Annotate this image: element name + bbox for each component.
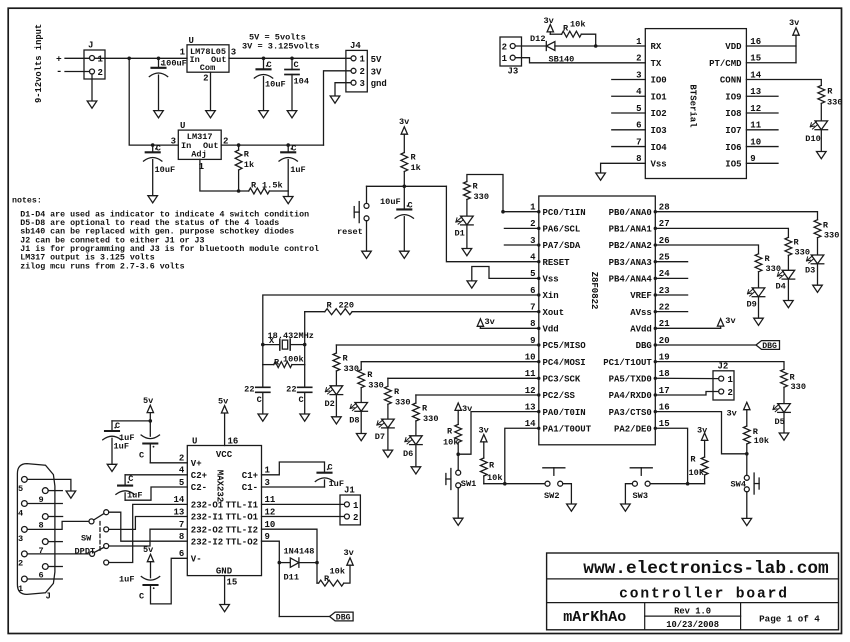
- wire BT CONN to D10 chain: [746, 80, 821, 86]
- svg-text:IO6: IO6: [725, 143, 741, 153]
- svg-text:Z8F0822: Z8F0822: [589, 272, 599, 310]
- svg-text:-: -: [56, 66, 62, 78]
- svg-text:232-O2: 232-O2: [191, 525, 223, 535]
- svg-text:IO1: IO1: [651, 92, 668, 102]
- svg-text:7: 7: [179, 520, 184, 530]
- wire V+ to cap: [150, 462, 187, 464]
- svg-text:J1 is for programming and J3 i: J1 is for programming and J3 is for blue…: [20, 244, 319, 254]
- svg-text:Xout: Xout: [543, 308, 565, 318]
- wire BT IO0 stub: [612, 79, 646, 81]
- wire DB9 pin1 stub: [27, 578, 62, 580]
- svg-text:9: 9: [750, 154, 755, 164]
- svg-text:C1-: C1-: [242, 483, 258, 493]
- wire VREF stub: [655, 294, 687, 296]
- svg-text:R: R: [473, 182, 479, 192]
- svg-text:PC5/MISO: PC5/MISO: [543, 341, 587, 351]
- power 3v (BT RX pullup): [544, 16, 562, 34]
- ground (SW3): [621, 504, 631, 511]
- svg-text:R: R: [489, 460, 495, 470]
- wire 5V rail LM78L05 Out to J4: [229, 57, 351, 61]
- svg-text:10k: 10k: [487, 473, 502, 483]
- svg-text:10uF: 10uF: [265, 80, 286, 90]
- svg-text:D10: D10: [805, 134, 820, 144]
- svg-text:PB2/ANA2: PB2/ANA2: [609, 241, 652, 251]
- resistor R 330 (D8): [358, 370, 384, 403]
- svg-text:C: C: [139, 592, 144, 602]
- svg-text:3v: 3v: [399, 117, 409, 127]
- svg-text:2: 2: [98, 68, 103, 78]
- wire PA3/CTS0 to SW4 node: [655, 412, 748, 456]
- svg-text:DBG: DBG: [336, 614, 351, 623]
- svg-text:J: J: [88, 41, 93, 51]
- wire BT IO3 stub: [612, 129, 646, 131]
- wire DB9 pin5 to ground: [27, 479, 71, 491]
- wire to D7 chain: [388, 378, 539, 386]
- svg-text:12: 12: [525, 386, 536, 396]
- svg-text:mArKhAo: mArKhAo: [563, 609, 626, 626]
- svg-text:J4: J4: [350, 41, 361, 51]
- wire BT IO7 stub: [746, 129, 778, 131]
- svg-text:2: 2: [636, 54, 641, 64]
- wire TTL-I2 to D11 node: [262, 529, 319, 564]
- svg-text:4: 4: [18, 508, 23, 518]
- wire reset node: [367, 185, 539, 262]
- svg-text:C: C: [139, 451, 144, 461]
- svg-text:PA6/SCL: PA6/SCL: [543, 225, 581, 235]
- svg-text:SW3: SW3: [633, 491, 648, 501]
- svg-text:IO0: IO0: [651, 76, 667, 86]
- svg-text:1uF: 1uF: [119, 575, 134, 585]
- push button SW2: [543, 468, 565, 501]
- wire TTL-O2 to DBG: [262, 541, 330, 616]
- wire PC1/T1OUT to D5 chain: [655, 362, 784, 370]
- svg-text:1: 1: [636, 37, 642, 47]
- svg-text:V+: V+: [191, 459, 202, 469]
- connector J2: [713, 362, 734, 401]
- IC U4 BTSerial: [636, 29, 762, 179]
- svg-text:C2+: C2+: [191, 471, 207, 481]
- svg-text:Adj: Adj: [191, 149, 206, 159]
- svg-text:19: 19: [659, 352, 670, 362]
- svg-text:IO2: IO2: [651, 109, 667, 119]
- svg-text:330: 330: [344, 364, 359, 374]
- power 3v (SW1 pullup): [455, 403, 472, 424]
- svg-text:C: C: [257, 395, 262, 405]
- capacitor C 100uF: [149, 58, 186, 110]
- svg-text:1uF: 1uF: [290, 165, 305, 175]
- svg-text:Vss: Vss: [543, 275, 559, 285]
- power 5v (MAX232 VCC): [218, 397, 228, 446]
- resistor R 220: [325, 301, 354, 315]
- svg-text:+: +: [56, 54, 62, 65]
- wire DB9 pin8 stub: [48, 516, 62, 518]
- svg-text:TTL-O1: TTL-O1: [226, 513, 259, 523]
- svg-text:PT/CMD: PT/CMD: [709, 59, 742, 69]
- svg-text:PA0/T0IN: PA0/T0IN: [543, 408, 586, 418]
- ground (SW4): [742, 518, 752, 525]
- svg-text:D11: D11: [284, 573, 299, 583]
- svg-text:PA1/T0OUT: PA1/T0OUT: [543, 424, 592, 434]
- svg-text:3v: 3v: [725, 316, 735, 326]
- svg-text:14: 14: [750, 70, 761, 80]
- svg-text:PB3/ANA3: PB3/ANA3: [609, 258, 652, 268]
- capacitor C 10uF (reset): [380, 186, 414, 251]
- svg-text:27: 27: [659, 219, 670, 229]
- svg-text:J3: J3: [508, 67, 519, 77]
- svg-text:controller board: controller board: [619, 586, 789, 602]
- svg-text:D2: D2: [325, 399, 335, 409]
- svg-text:R: R: [367, 370, 373, 380]
- power 3v (BT VDD/PT-CMD): [746, 18, 799, 63]
- svg-text:R: R: [274, 357, 280, 367]
- resistor R 1.5k: [249, 181, 283, 195]
- svg-text:13: 13: [750, 87, 761, 97]
- resistor R 330 (D1): [464, 182, 489, 217]
- svg-text:25: 25: [659, 252, 670, 262]
- svg-text:330: 330: [791, 382, 806, 392]
- svg-text:15: 15: [659, 419, 670, 429]
- svg-text:11: 11: [525, 369, 536, 379]
- ground (reset cap): [400, 251, 410, 258]
- svg-text:gnd: gnd: [371, 79, 387, 89]
- svg-text:zilog mcu runs from 2.7-3.6 vo: zilog mcu runs from 2.7-3.6 volts: [20, 261, 184, 271]
- connector J4 (power out): [346, 41, 387, 92]
- LED D9: [747, 288, 765, 318]
- svg-text:SW: SW: [81, 534, 92, 544]
- svg-text:PC4/MOSI: PC4/MOSI: [543, 358, 586, 368]
- wire TTL-O1 to J1 pin2: [262, 516, 345, 518]
- resistor R 10k (BT RX): [562, 20, 596, 47]
- ground (10uF LM317): [148, 196, 158, 203]
- power 3v (SW4 pullup): [727, 402, 751, 426]
- ground (D5): [779, 433, 789, 440]
- svg-text:J: J: [46, 592, 51, 602]
- svg-text:5v: 5v: [143, 396, 153, 406]
- svg-text:C: C: [115, 421, 120, 431]
- capacitor C 1uF (C1): [262, 462, 344, 489]
- svg-text:9: 9: [265, 532, 270, 542]
- wire J4 pin3 to ground: [335, 83, 351, 96]
- power 3v (AVdd): [655, 316, 735, 329]
- svg-text:4: 4: [636, 87, 642, 97]
- svg-text:IO4: IO4: [651, 143, 668, 153]
- capacitor 22pF (Xin): [244, 365, 270, 414]
- title www.electronics-lab.com: [583, 559, 829, 579]
- svg-text:8: 8: [179, 532, 184, 542]
- svg-text:10: 10: [265, 520, 276, 530]
- svg-text:IO9: IO9: [725, 92, 741, 102]
- svg-text:sb140 can be replaced with gen: sb140 can be replaced with gen. purpose …: [20, 227, 294, 237]
- wire PB4 stub: [655, 277, 687, 279]
- svg-text:1: 1: [353, 501, 359, 511]
- ground (BT Vss): [596, 173, 606, 180]
- title author mArKhAo: [563, 609, 626, 626]
- wire DPDT throw4 to 232-O1: [109, 504, 188, 562]
- svg-text:J2 can be conneted to either J: J2 can be conneted to either J1 or J3: [20, 235, 204, 245]
- power 3v (reset pullup): [399, 117, 409, 153]
- svg-text:5v: 5v: [218, 397, 228, 407]
- svg-text:10: 10: [750, 137, 761, 147]
- diode D11 1N4148: [279, 547, 317, 583]
- flag DBG (MAX232): [330, 612, 354, 623]
- svg-text:10k: 10k: [330, 567, 345, 577]
- capacitor C 1uF (C2): [116, 474, 187, 501]
- svg-text:C: C: [294, 60, 299, 70]
- svg-text:1uF: 1uF: [329, 479, 344, 489]
- svg-text:17: 17: [659, 386, 670, 396]
- svg-text:12: 12: [265, 507, 276, 517]
- svg-text:LM317 output is 3.125 volts: LM317 output is 3.125 volts: [20, 253, 154, 263]
- svg-text:1: 1: [18, 584, 23, 594]
- LED D10: [805, 121, 827, 152]
- push button reset: [337, 186, 369, 251]
- capacitor C 10uF (5V rail): [254, 58, 285, 110]
- ground (J pin2): [87, 101, 97, 108]
- svg-text:9: 9: [530, 336, 535, 346]
- svg-text:www.electronics-lab.com: www.electronics-lab.com: [583, 559, 829, 579]
- svg-text:IO3: IO3: [651, 126, 667, 136]
- svg-text:TTL-O2: TTL-O2: [226, 537, 258, 547]
- svg-text:1k: 1k: [411, 163, 421, 173]
- wire PA4/RXD0 to J2 pin2: [655, 392, 718, 395]
- ground (D6): [411, 467, 421, 474]
- svg-text:1uF: 1uF: [127, 491, 142, 501]
- svg-text:9-12volts input: 9-12volts input: [34, 24, 44, 103]
- capacitor C 10uF (LM317 in): [144, 144, 176, 196]
- wire PC0 to R330 D1: [467, 175, 539, 214]
- svg-text:C: C: [128, 474, 133, 484]
- svg-text:R: R: [447, 427, 453, 437]
- svg-text:Vdd: Vdd: [543, 325, 559, 335]
- wire DB9 pin4 stub: [27, 503, 62, 505]
- wire LM317 Adj: [200, 159, 249, 192]
- ground (104): [287, 111, 297, 118]
- svg-text:AVss: AVss: [630, 308, 652, 318]
- svg-text:100uF: 100uF: [161, 59, 187, 69]
- svg-text:PA3/CTS0: PA3/CTS0: [609, 408, 652, 418]
- svg-text:220: 220: [339, 301, 354, 311]
- svg-text:330: 330: [368, 381, 383, 391]
- svg-text:15: 15: [750, 54, 761, 64]
- svg-text:3v: 3v: [789, 18, 799, 28]
- svg-text:R: R: [794, 238, 800, 248]
- svg-text:R: R: [343, 354, 349, 364]
- svg-text:C1+: C1+: [242, 471, 258, 481]
- svg-text:3v: 3v: [544, 16, 554, 26]
- svg-text:3: 3: [360, 79, 365, 89]
- resistor R 330 (D6): [413, 403, 439, 436]
- svg-text:10k: 10k: [443, 438, 458, 448]
- wire J pin1 to LM78L05 In rail: [95, 57, 188, 61]
- svg-text:2: 2: [203, 74, 208, 84]
- svg-text:5V: 5V: [371, 55, 382, 65]
- wire BT Vss to ground: [601, 163, 646, 173]
- push button SW4: [731, 454, 760, 519]
- svg-text:6: 6: [179, 549, 184, 559]
- svg-text:C: C: [291, 144, 296, 154]
- svg-text:12: 12: [750, 104, 761, 114]
- svg-text:1: 1: [98, 54, 104, 64]
- svg-text:1k: 1k: [244, 160, 254, 170]
- ground (MAX232 GND): [220, 605, 230, 612]
- title rev: [674, 607, 711, 617]
- title controller board: [619, 586, 789, 602]
- svg-text:SW1: SW1: [461, 479, 476, 489]
- svg-text:IO5: IO5: [725, 160, 741, 170]
- resistor R 10k (SW4): [743, 426, 769, 454]
- svg-text:R: R: [765, 254, 771, 264]
- resistor R 10k (SW3): [689, 454, 709, 483]
- wire LM317 Out to 3V node: [221, 143, 323, 147]
- svg-text:1: 1: [530, 203, 536, 213]
- wire to D6 chain: [416, 395, 539, 403]
- svg-text:2: 2: [728, 388, 733, 398]
- wire BT IO4 stub: [612, 146, 646, 148]
- ground (SW1): [453, 518, 463, 525]
- svg-text:R: R: [411, 153, 417, 163]
- resistor R 330 (D9): [755, 254, 781, 288]
- svg-text:2: 2: [18, 559, 23, 569]
- title date: [666, 620, 719, 630]
- regulator U2 LM317: [171, 121, 229, 172]
- svg-text:1.5k: 1.5k: [262, 181, 283, 191]
- svg-text:reset: reset: [337, 227, 363, 237]
- svg-text:23: 23: [659, 286, 670, 296]
- svg-text:330: 330: [824, 231, 839, 241]
- svg-text:R: R: [827, 86, 833, 96]
- wire Xin net: [263, 295, 539, 345]
- wire DPDT throw2 to 232-I1: [109, 517, 188, 530]
- svg-text:In: In: [181, 141, 191, 151]
- wire Vss to ground: [472, 267, 539, 281]
- svg-text:Xin: Xin: [543, 291, 559, 301]
- power 3v (SW2 pullup): [479, 426, 489, 458]
- svg-text:3v: 3v: [462, 404, 472, 414]
- title page: [759, 613, 820, 624]
- resistor R 100k: [263, 345, 305, 368]
- crystal X 18.432MHz: [261, 331, 314, 350]
- svg-text:330: 330: [395, 397, 410, 407]
- title block: [547, 553, 839, 630]
- svg-text:D12: D12: [530, 34, 545, 44]
- svg-text:1: 1: [265, 466, 271, 476]
- wire AVss stub: [655, 311, 687, 313]
- wire J4 pin2 3V to LM317 out: [324, 71, 352, 145]
- svg-text:C: C: [267, 60, 272, 70]
- svg-text:5: 5: [636, 104, 641, 114]
- ground (LM78L05 Com): [206, 111, 216, 118]
- wire SW2 to ground: [563, 484, 572, 504]
- connector J (DB9): [17, 464, 55, 602]
- switch SW DPDT: [75, 510, 109, 565]
- svg-text:232-O1: 232-O1: [191, 501, 224, 511]
- svg-text:PC2/SS: PC2/SS: [543, 391, 576, 401]
- capacitor C 1uF (LM317 out): [279, 144, 306, 197]
- ground (R1.5k / 1uF): [283, 197, 293, 204]
- svg-text:22: 22: [244, 384, 254, 394]
- svg-text:8: 8: [530, 319, 535, 329]
- svg-text:PA2/DE0: PA2/DE0: [614, 424, 652, 434]
- ground (bypass cap): [107, 464, 117, 471]
- wire DB9 pin9 stub: [48, 490, 62, 492]
- ground (MCU Vss): [467, 281, 477, 288]
- svg-text:DPDT: DPDT: [75, 547, 96, 557]
- wire PA5/TXD0 to J2 pin1: [655, 377, 718, 379]
- resistor R 330 (D10): [818, 85, 843, 121]
- wire J3 pin2 to D12: [515, 45, 546, 47]
- svg-text:D1: D1: [455, 229, 465, 239]
- svg-text:V-: V-: [191, 555, 202, 565]
- resistor R 10k (SW1): [443, 424, 462, 454]
- wire DB9 pin2 to DPDT pole2: [27, 553, 89, 555]
- svg-text:10k: 10k: [570, 20, 585, 30]
- svg-text:J1: J1: [344, 486, 355, 496]
- ground (22pF Xin): [258, 414, 268, 421]
- svg-text:D7: D7: [375, 432, 385, 442]
- svg-text:6: 6: [530, 286, 535, 296]
- ground (D4): [784, 301, 794, 308]
- svg-text:SW2: SW2: [544, 491, 559, 501]
- svg-text:16: 16: [750, 37, 761, 47]
- svg-text:3: 3: [18, 534, 23, 544]
- svg-text:DBG: DBG: [762, 342, 777, 351]
- LED D7: [375, 419, 395, 450]
- diode D12 SB140: [530, 34, 574, 65]
- svg-text:3: 3: [265, 478, 270, 488]
- svg-text:15: 15: [227, 578, 238, 588]
- svg-text:1N4148: 1N4148: [284, 547, 315, 557]
- svg-text:5: 5: [179, 478, 184, 488]
- svg-text:3v: 3v: [485, 317, 495, 327]
- svg-text:SW4: SW4: [731, 480, 746, 490]
- svg-text:10/23/2008: 10/23/2008: [666, 620, 719, 630]
- svg-text:232-I1: 232-I1: [191, 513, 224, 523]
- svg-text:330: 330: [795, 247, 810, 257]
- svg-text:RESET: RESET: [543, 258, 571, 268]
- svg-text:22: 22: [286, 384, 296, 394]
- power 5v (V- cap): [143, 545, 154, 578]
- resistor R 330 (D3): [814, 220, 839, 255]
- wire PA2/DE0 to SW3 node: [650, 428, 705, 485]
- svg-text:1: 1: [502, 54, 508, 64]
- svg-text:10k: 10k: [689, 468, 704, 478]
- svg-text:104: 104: [294, 77, 309, 87]
- svg-text:3v: 3v: [727, 409, 737, 419]
- svg-text:D1-D4 are used as indicator to: D1-D4 are used as indicator to indicate …: [20, 209, 309, 219]
- ground (D1): [462, 249, 472, 256]
- wire PA6 stub: [504, 227, 538, 229]
- wire PB1/ANA1 to D4 chain: [655, 228, 788, 237]
- svg-text:100k: 100k: [283, 354, 304, 364]
- svg-text:D3: D3: [805, 265, 815, 275]
- LED D5: [773, 404, 790, 433]
- capacitor C 1uF (V-): [119, 575, 160, 602]
- wire SW3 to ground: [625, 484, 632, 504]
- svg-text:VCC: VCC: [216, 450, 233, 460]
- IC U5 MAX232: [173, 437, 275, 588]
- svg-text:Page 1 of 4: Page 1 of 4: [759, 613, 820, 624]
- svg-text:PB0/ANA0: PB0/ANA0: [609, 208, 652, 218]
- resistor R 10k (D11): [317, 563, 350, 587]
- svg-text:D6: D6: [403, 449, 413, 459]
- svg-text:TTL-I2: TTL-I2: [226, 525, 258, 535]
- ground (D3): [813, 285, 823, 292]
- wire DB9 pin6 stub: [48, 566, 62, 568]
- svg-text:11: 11: [265, 495, 276, 505]
- ground (SW2): [567, 504, 577, 511]
- wire PA0 to SW1 node: [456, 412, 538, 456]
- svg-text:18: 18: [659, 369, 670, 379]
